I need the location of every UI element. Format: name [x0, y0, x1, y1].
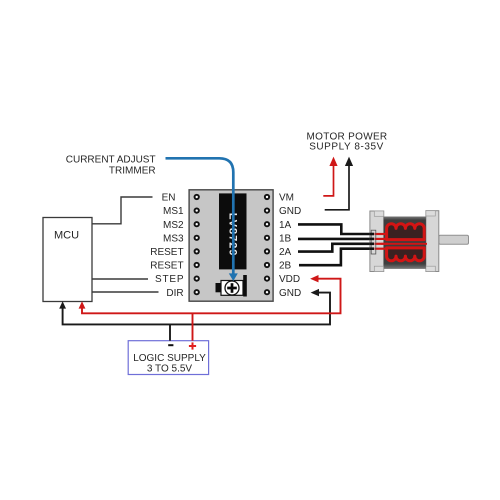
- svg-text:VDD: VDD: [279, 274, 300, 285]
- svg-text:DIR: DIR: [166, 288, 183, 299]
- motor right end plate: [426, 211, 439, 272]
- arrowhead into VDD pin: [310, 275, 318, 282]
- svg-text:SUPPLY 8-35V: SUPPLY 8-35V: [309, 141, 384, 152]
- motor lead wire ends over flange: [370, 234, 375, 249]
- plus terminal of logic supply (red): [189, 342, 196, 349]
- wire logic minus vertical: [169, 324, 171, 340]
- wire GND to motor power supply (black, -): [325, 165, 349, 210]
- motor middle winding line: [381, 243, 427, 245]
- svg-text:TRIMMER: TRIMMER: [109, 166, 156, 177]
- callout wire to trimmer (blue): [166, 158, 234, 274]
- svg-text:1A: 1A: [279, 220, 292, 231]
- red motor lead stubs: [375, 234, 389, 249]
- svg-text:CURRENT ADJUST: CURRENT ADJUST: [66, 155, 156, 166]
- wire 1B to motor coil: [298, 238, 374, 241]
- svg-text:MS2: MS2: [163, 220, 184, 231]
- stepper driver module U2 (LV8729 breakout board): [189, 190, 273, 301]
- stepper motor M1: [370, 211, 469, 272]
- arrowhead into MCU ground: [59, 301, 66, 308]
- wire logic plus vertical: [192, 313, 194, 340]
- logic supply PS1 box: [128, 341, 208, 375]
- svg-text:EN: EN: [162, 193, 176, 204]
- callout arrowhead at trimmer: [229, 273, 238, 281]
- wire MCU to EN: [92, 197, 153, 224]
- svg-text:1B: 1B: [279, 233, 292, 244]
- wire 2A to motor coil: [298, 244, 374, 252]
- svg-text:MS1: MS1: [163, 206, 184, 217]
- wire MCU to DIR: [92, 291, 159, 293]
- arrowhead motor power -: [345, 157, 353, 166]
- svg-text:MCU: MCU: [54, 229, 79, 241]
- driver IC LV8729 package: [219, 193, 247, 269]
- arrowhead into GND pin: [311, 289, 319, 296]
- MCU U1 box: [43, 218, 92, 302]
- current adjust trimmer RV1: [216, 275, 247, 297]
- svg-text:2B: 2B: [279, 261, 292, 272]
- svg-text:RESET: RESET: [150, 261, 183, 272]
- wire VM to motor power supply (red, +): [323, 165, 333, 196]
- motor coil winding B (bottom): [387, 248, 425, 261]
- svg-text:RESET: RESET: [150, 247, 183, 258]
- svg-text:STEP: STEP: [155, 274, 184, 285]
- wire 1A to motor coil: [298, 224, 374, 234]
- wire 2B to motor coil: [299, 249, 374, 266]
- arrowhead into MCU supply: [79, 301, 86, 308]
- svg-text:GND: GND: [279, 206, 301, 217]
- motor connector outline: [371, 230, 376, 254]
- motor coil winding A (top): [387, 224, 425, 240]
- pin header holes, right column (VM GND 1A 1B 2A 2B VDD GND): [264, 194, 270, 295]
- svg-text:VM: VM: [279, 193, 294, 204]
- VDD net wire: logic supply plus to MCU and driver VDD (red): [82, 279, 341, 314]
- svg-text:MS3: MS3: [163, 233, 184, 244]
- svg-text:3 TO 5.5V: 3 TO 5.5V: [147, 364, 193, 375]
- wire MCU to STEP: [92, 278, 148, 280]
- svg-text:2A: 2A: [279, 247, 292, 258]
- svg-text:GND: GND: [279, 288, 301, 299]
- motor shaft: [439, 235, 469, 244]
- ground net wire: logic supply minus to MCU and driver GND (black): [63, 293, 330, 325]
- arrowhead motor power +: [329, 157, 337, 166]
- motor left end plate: [370, 211, 384, 272]
- pin header holes, left column (EN MS1 MS2 MS3 RESET RESET STEP DIR): [194, 194, 200, 295]
- minus terminal of logic supply: [168, 344, 173, 346]
